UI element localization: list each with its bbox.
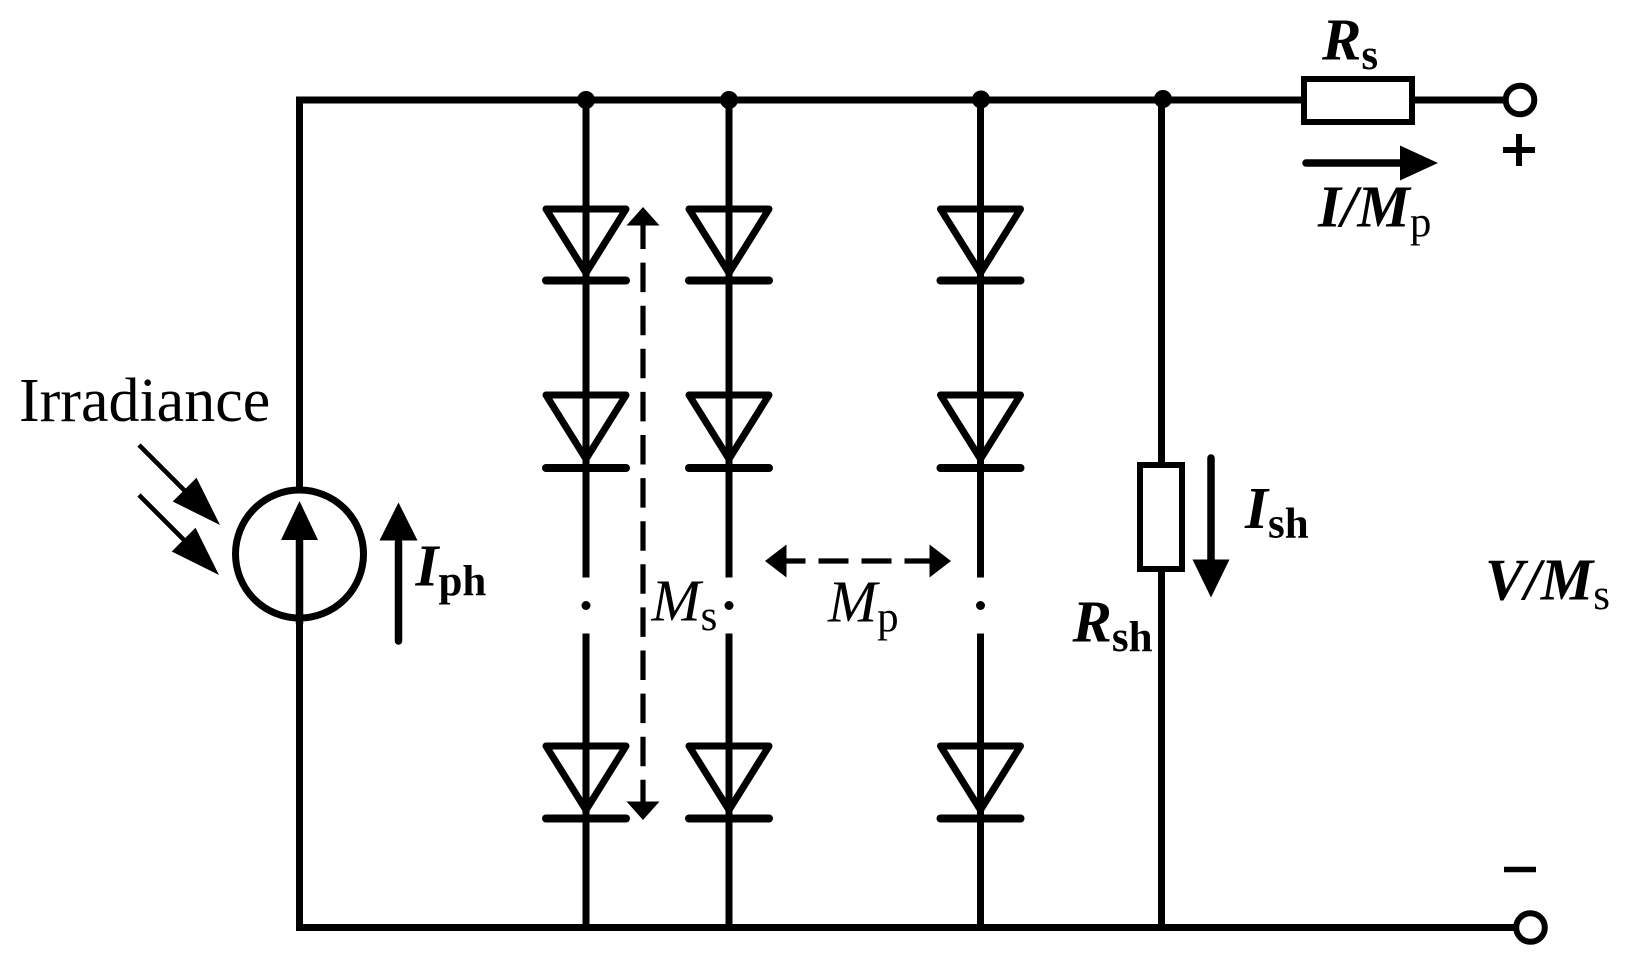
- M_s dashed measure arrow (vertical): [627, 207, 660, 820]
- irradiance arrow 2: [139, 495, 219, 575]
- dots continuation string2: [725, 601, 734, 610]
- wire diode string 3 upper: [977, 100, 984, 578]
- wire diode string 2 upper: [726, 100, 733, 578]
- wire R_sh branch lower: [1158, 571, 1165, 927]
- M_p dashed measure arrow (horizontal): [765, 545, 951, 578]
- wire diode string 2 lower: [726, 634, 733, 928]
- wire bottom bus: [296, 924, 1514, 931]
- diode D7 string3 row1: [941, 209, 1021, 281]
- junction dot node B (string2 / top bus): [720, 91, 738, 109]
- terminal - output (bottom right): [1516, 913, 1545, 942]
- diode D1 string1 row1: [546, 209, 626, 281]
- dots continuation string1: [582, 601, 591, 610]
- minus sign: [1504, 867, 1536, 873]
- wire left vertical upper: [296, 97, 303, 492]
- dots continuation string3: [976, 601, 985, 610]
- current source arrow shaft: [296, 538, 304, 624]
- diode D5 string2 row2: [689, 395, 769, 468]
- resistor R_s: [1304, 79, 1412, 122]
- diode D9 string3 row3: [941, 746, 1021, 819]
- svg-text:V/Ms: V/Ms: [1485, 547, 1610, 620]
- wire top right to terminal: [1415, 97, 1504, 104]
- arrow I_ph: [380, 503, 418, 642]
- wire diode string 1 upper: [583, 100, 590, 578]
- junction dot node C (string3 / top bus): [972, 91, 990, 109]
- wire left vertical lower: [296, 618, 303, 927]
- irradiance arrow 1: [139, 445, 220, 525]
- diode D4 string2 row1: [689, 209, 769, 281]
- diode D8 string3 row2: [941, 395, 1021, 468]
- arrow I_sh: [1193, 458, 1230, 598]
- wire top bus: [299, 97, 1301, 104]
- wire diode string 1 lower: [583, 634, 590, 928]
- resistor R_sh: [1140, 465, 1182, 569]
- svg-text:Irradiance: Irradiance: [19, 367, 270, 435]
- current source arrowhead: [281, 501, 318, 540]
- current source U1 (photocurrent source): [236, 490, 364, 618]
- junction dot node A (string1 / top bus): [577, 91, 595, 109]
- diode D2 string1 row2: [546, 395, 626, 468]
- arrow I/M_p: [1306, 146, 1438, 181]
- wire diode string 3 lower: [977, 634, 984, 928]
- diode D6 string2 row3: [689, 746, 769, 819]
- terminal + output (top right): [1506, 86, 1535, 115]
- plus sign: [1503, 134, 1535, 166]
- wire R_sh branch upper: [1158, 100, 1165, 463]
- junction dot node D (R_sh branch / top bus): [1154, 90, 1172, 108]
- diode D3 string1 row3: [546, 746, 626, 819]
